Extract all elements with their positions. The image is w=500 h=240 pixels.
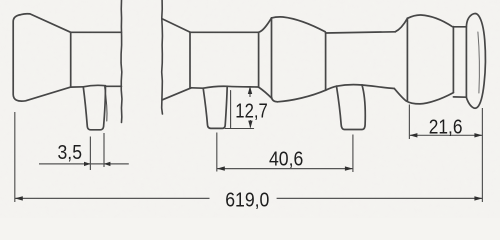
dim 3,5 extension line right bbox=[103, 133, 105, 167]
dim 619,0 dimension line left segment bbox=[15, 197, 210, 199]
dim 3,5 dimension line bbox=[39, 163, 129, 165]
spout 1 top arc bbox=[83, 85, 105, 86]
arrow 12,7 up bbox=[248, 86, 252, 94]
arrow 40,6 left bbox=[217, 166, 225, 170]
middle funnel mouth vertical bbox=[258, 32, 260, 87]
dim 619,0 dimension line right segment bbox=[277, 197, 483, 199]
middle tube bottom (mouth to spout 2) bbox=[191, 87, 203, 89]
middle funnel mouth seam bbox=[189, 32, 191, 88]
right end shoulder top bbox=[395, 18, 407, 32]
bulb left shoulder top bbox=[258, 18, 271, 32]
dim 40,6 dimension line bbox=[217, 168, 353, 170]
spout 1 body bbox=[83, 86, 105, 130]
break line right bbox=[161, 0, 164, 114]
spout 2 tip reference line bbox=[225, 128, 253, 130]
shared right extension line bbox=[481, 108, 483, 202]
right tube bottom (spout 3 to end) bbox=[362, 85, 394, 89]
dim 3,5 extension line left bbox=[89, 137, 91, 171]
dim 21,6 extension line left bbox=[408, 105, 410, 140]
spout 2 top arc bbox=[203, 86, 227, 88]
right end shoulder bottom bbox=[394, 89, 406, 101]
break line left bbox=[120, 0, 123, 123]
end disc inner rim line bbox=[478, 32, 480, 93]
bulb bottom bbox=[278, 90, 326, 102]
right tube top line bbox=[326, 32, 396, 33]
end disc outline bbox=[466, 14, 485, 109]
left tube top line bbox=[71, 31, 122, 33]
spout 1 right inner line bbox=[105, 87, 107, 121]
dim 12,7 lower arrow shaft bbox=[249, 120, 251, 128]
left tube bottom line (spout 1 to break) bbox=[105, 85, 122, 87]
spout 3 body bbox=[337, 85, 366, 130]
spout 3 top arc bbox=[337, 85, 363, 87]
arrow 3,5 left (points right to ext) bbox=[84, 162, 91, 166]
dim 12,7 lower extension already ref line; upper arrow shaft bbox=[249, 88, 251, 97]
right bellows bottom bbox=[406, 93, 453, 104]
middle funnel top slope bbox=[162, 19, 190, 32]
arrow 40,6 right bbox=[345, 166, 353, 170]
right bellows dome top bbox=[407, 15, 452, 27]
left end-fitting funnel outline bbox=[13, 14, 70, 101]
right bellows left seam bbox=[406, 18, 408, 101]
bulb left seam bbox=[272, 18, 278, 102]
dim 40,6 extension line right bbox=[352, 135, 354, 173]
bulb dome top bbox=[272, 17, 326, 32]
left funnel mouth seam bbox=[70, 32, 72, 87]
arrow 12,7 down bbox=[248, 121, 252, 129]
right bellows right seam bbox=[452, 27, 454, 93]
funnel bottom to bulb transition bbox=[258, 87, 271, 98]
middle tube top line bbox=[190, 31, 258, 33]
aux vertical line right of spout 2 bbox=[230, 91, 232, 128]
dim 619,0 extension line left bbox=[14, 112, 16, 202]
arrow 21,6 right bbox=[474, 133, 482, 137]
spout 2 body bbox=[203, 86, 227, 128]
right tube bottom (bulb to spout 3) bbox=[326, 86, 337, 90]
arrow 619,0 right bbox=[474, 196, 482, 200]
arrow 619,0 left bbox=[15, 196, 23, 200]
arrow 3,5 right (points left to ext) bbox=[104, 162, 111, 166]
bulb right seam bbox=[325, 32, 327, 90]
neck bottom bbox=[453, 96, 466, 98]
middle funnel bottom slope bbox=[162, 88, 191, 100]
middle tube bottom (spout 2 to bulb) bbox=[227, 85, 258, 88]
neck top bbox=[453, 26, 466, 28]
left tube bottom line (funnel to spout 1) bbox=[71, 86, 84, 88]
dim 21,6 dimension line bbox=[409, 134, 482, 136]
dim 40,6 extension line left bbox=[216, 133, 218, 172]
arrow 21,6 left bbox=[409, 133, 417, 137]
